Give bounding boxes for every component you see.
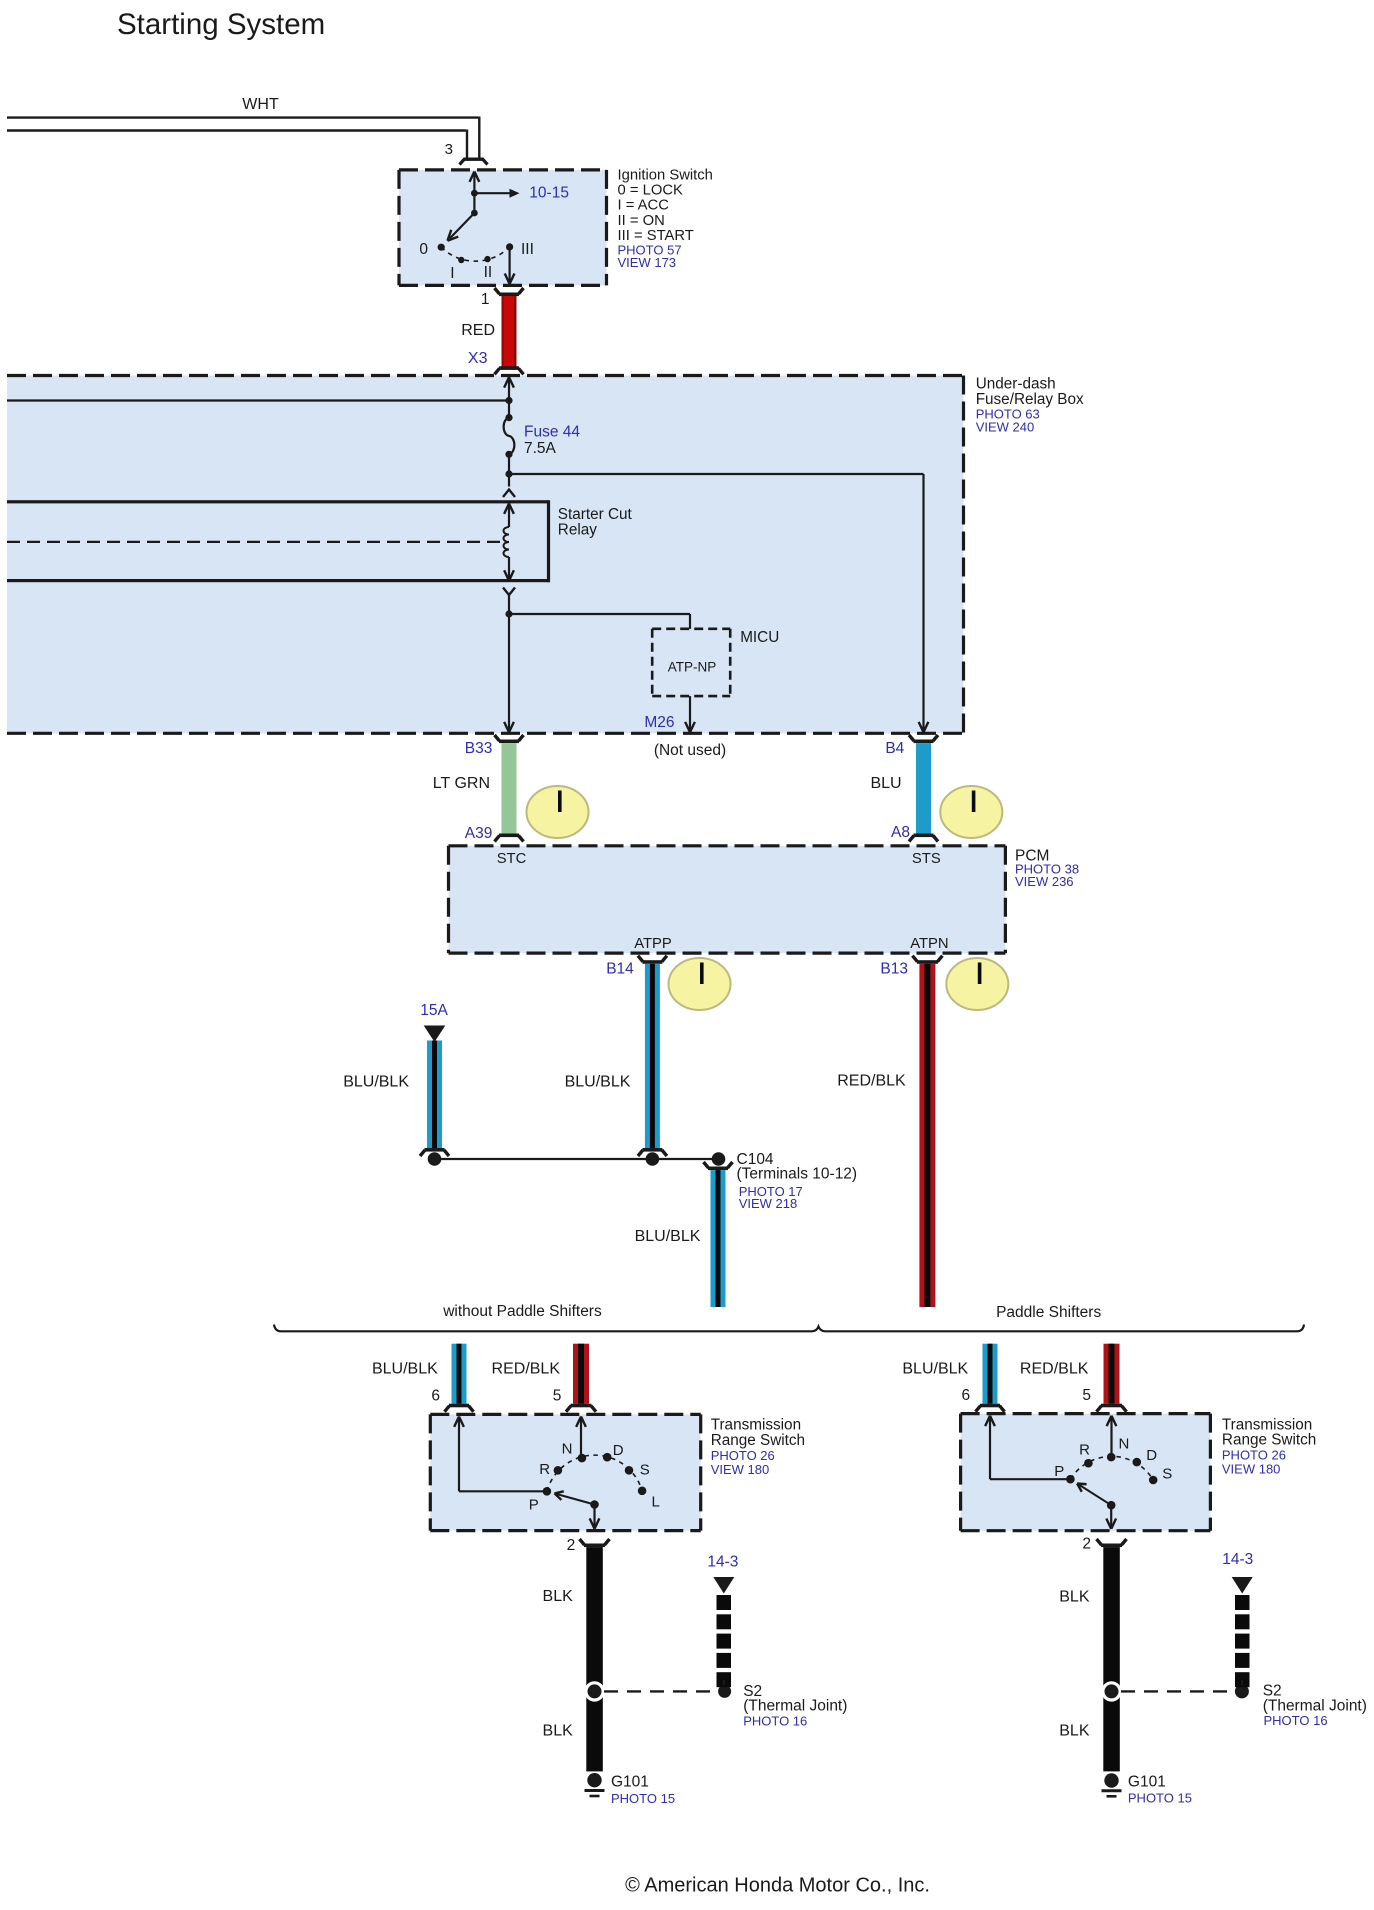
svg-text:STS: STS xyxy=(912,851,941,867)
svg-text:I = ACC: I = ACC xyxy=(618,198,670,214)
svg-text:III: III xyxy=(521,241,534,258)
svg-text:VIEW 180: VIEW 180 xyxy=(1222,1462,1281,1477)
svg-text:PHOTO 16: PHOTO 16 xyxy=(1264,1713,1328,1728)
svg-text:LT GRN: LT GRN xyxy=(433,775,490,792)
svg-text:BLK: BLK xyxy=(543,1723,574,1740)
svg-text:ATP-NP: ATP-NP xyxy=(668,659,717,674)
svg-text:BLK: BLK xyxy=(1059,1588,1090,1605)
svg-text:without Paddle Shifters: without Paddle Shifters xyxy=(442,1303,602,1320)
svg-text:VIEW 173: VIEW 173 xyxy=(618,255,677,270)
svg-text:I: I xyxy=(450,265,454,282)
svg-text:RED/BLK: RED/BLK xyxy=(1020,1360,1089,1377)
svg-text:Range Switch: Range Switch xyxy=(1222,1432,1316,1449)
svg-text:(Terminals 10-12): (Terminals 10-12) xyxy=(737,1166,858,1183)
svg-text:ATPP: ATPP xyxy=(634,936,672,952)
svg-text:N: N xyxy=(562,1441,573,1458)
svg-text:2: 2 xyxy=(567,1537,576,1554)
svg-text:0 = LOCK: 0 = LOCK xyxy=(618,183,684,199)
svg-text:VIEW 218: VIEW 218 xyxy=(739,1196,798,1211)
svg-text:B33: B33 xyxy=(465,740,493,757)
svg-text:B14: B14 xyxy=(606,961,634,978)
svg-text:Paddle Shifters: Paddle Shifters xyxy=(996,1304,1101,1321)
svg-text:BLU: BLU xyxy=(870,775,901,792)
svg-text:10-15: 10-15 xyxy=(529,185,569,202)
svg-text:VIEW 180: VIEW 180 xyxy=(711,1462,770,1477)
svg-text:G101: G101 xyxy=(611,1774,649,1791)
svg-text:B13: B13 xyxy=(880,961,908,978)
svg-text:BLK: BLK xyxy=(543,1588,574,1605)
svg-text:MICU: MICU xyxy=(740,629,779,646)
svg-text:M26: M26 xyxy=(644,714,674,731)
svg-text:BLK: BLK xyxy=(1059,1723,1090,1740)
svg-text:II: II xyxy=(484,264,493,281)
svg-text:Range Switch: Range Switch xyxy=(711,1432,805,1449)
svg-text:(Not used): (Not used) xyxy=(654,742,726,759)
svg-text:Relay: Relay xyxy=(558,521,597,538)
svg-text:PHOTO 26: PHOTO 26 xyxy=(1222,1448,1286,1463)
svg-text:VIEW 236: VIEW 236 xyxy=(1015,874,1074,889)
svg-text:BLU/BLK: BLU/BLK xyxy=(635,1228,701,1245)
svg-text:14-3: 14-3 xyxy=(1222,1551,1253,1568)
svg-text:2: 2 xyxy=(1082,1536,1091,1553)
svg-text:S: S xyxy=(640,1462,650,1479)
svg-text:D: D xyxy=(1146,1447,1157,1464)
svg-text:(Thermal Joint): (Thermal Joint) xyxy=(1263,1698,1367,1715)
svg-text:R: R xyxy=(539,1461,550,1478)
svg-text:P: P xyxy=(529,1497,539,1514)
svg-text:6: 6 xyxy=(431,1387,440,1404)
svg-text:R: R xyxy=(1079,1442,1090,1459)
svg-text:PHOTO 15: PHOTO 15 xyxy=(1128,1791,1192,1806)
svg-text:14-3: 14-3 xyxy=(707,1554,738,1571)
svg-text:0: 0 xyxy=(419,241,428,258)
svg-text:RED/BLK: RED/BLK xyxy=(492,1360,561,1377)
svg-text:7.5A: 7.5A xyxy=(524,440,557,457)
svg-text:5: 5 xyxy=(553,1387,562,1404)
svg-text:Fuse/Relay Box: Fuse/Relay Box xyxy=(976,391,1084,408)
svg-text:VIEW 240: VIEW 240 xyxy=(976,420,1035,435)
svg-text:P: P xyxy=(1054,1463,1064,1480)
svg-text:6: 6 xyxy=(961,1387,970,1404)
svg-text:ATPN: ATPN xyxy=(910,936,948,952)
svg-text:BLU/BLK: BLU/BLK xyxy=(343,1074,409,1091)
svg-text:A8: A8 xyxy=(891,824,910,841)
svg-text:BLU/BLK: BLU/BLK xyxy=(902,1360,968,1377)
svg-text:BLU/BLK: BLU/BLK xyxy=(565,1074,631,1091)
svg-text:WHT: WHT xyxy=(242,96,279,113)
svg-text:PHOTO 16: PHOTO 16 xyxy=(743,1713,807,1728)
svg-text:PHOTO 26: PHOTO 26 xyxy=(711,1448,775,1463)
svg-text:Ignition Switch: Ignition Switch xyxy=(618,167,713,183)
svg-text:1: 1 xyxy=(481,291,490,308)
svg-text:Starting System: Starting System xyxy=(117,8,325,41)
svg-text:5: 5 xyxy=(1082,1387,1091,1404)
svg-text:D: D xyxy=(613,1442,624,1459)
svg-text:BLU/BLK: BLU/BLK xyxy=(372,1360,438,1377)
svg-text:Fuse 44: Fuse 44 xyxy=(524,424,580,441)
svg-text:L: L xyxy=(652,1494,660,1511)
svg-text:RED/BLK: RED/BLK xyxy=(837,1072,906,1089)
svg-text:15A: 15A xyxy=(420,1002,448,1019)
svg-text:3: 3 xyxy=(445,141,453,158)
svg-text:X3: X3 xyxy=(468,350,488,367)
svg-text:(Thermal Joint): (Thermal Joint) xyxy=(743,1698,847,1715)
svg-text:S: S xyxy=(1162,1466,1172,1483)
svg-text:A39: A39 xyxy=(465,825,493,842)
svg-text:RED: RED xyxy=(461,322,495,339)
svg-text:STC: STC xyxy=(497,851,527,867)
svg-text:PHOTO 15: PHOTO 15 xyxy=(611,1791,675,1806)
svg-text:II = ON: II = ON xyxy=(618,213,665,229)
svg-text:© American Honda Motor Co., In: © American Honda Motor Co., Inc. xyxy=(625,1875,930,1897)
svg-text:N: N xyxy=(1118,1436,1129,1453)
svg-text:B4: B4 xyxy=(885,740,904,757)
svg-text:G101: G101 xyxy=(1128,1773,1166,1790)
